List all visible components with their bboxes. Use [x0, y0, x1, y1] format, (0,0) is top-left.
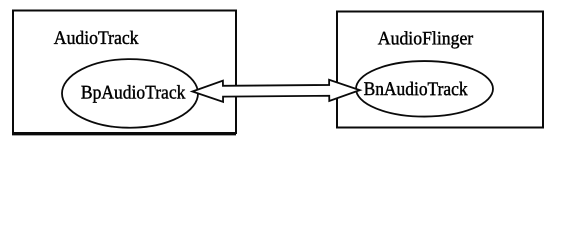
svg-text:AudioFlinger: AudioFlinger: [378, 28, 474, 49]
svg-text:BpAudioTrack: BpAudioTrack: [81, 82, 186, 103]
double-headed hollow arrow between BpAudioTrack and BnAudioTrack: [192, 80, 360, 103]
box AudioTrack (left rectangle): [13, 11, 236, 134]
box AudioFlinger (right rectangle): [337, 12, 543, 128]
thick bottom edge of left rectangle: [12, 134, 236, 136]
ellipse BpAudioTrack (left oval): [62, 59, 198, 128]
ellipse BnAudioTrack (right oval): [356, 61, 493, 117]
svg-text:AudioTrack: AudioTrack: [54, 28, 139, 49]
svg-text:BnAudioTrack: BnAudioTrack: [364, 79, 468, 100]
